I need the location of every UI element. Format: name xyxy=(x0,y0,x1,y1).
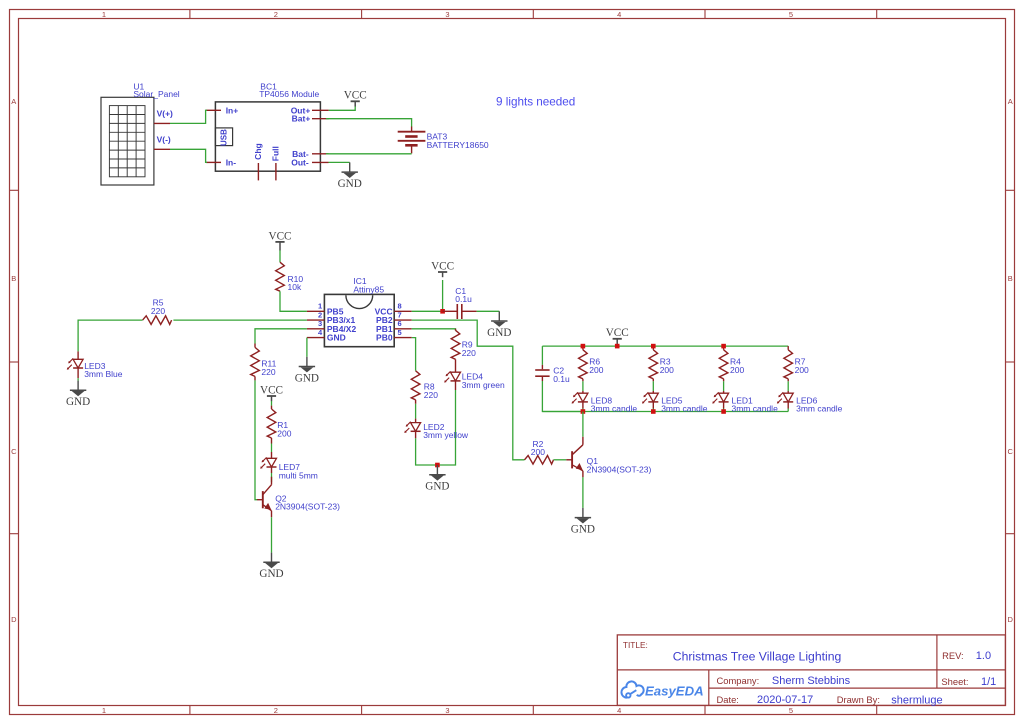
svg-text:5: 5 xyxy=(789,10,793,19)
wire R4 to LED1 xyxy=(723,379,725,382)
pin 3 PB4/X2 xyxy=(307,328,325,330)
resistor R9 xyxy=(455,329,457,331)
svg-text:3mm candle: 3mm candle xyxy=(661,404,708,414)
ground at IC pin 4 xyxy=(306,357,308,367)
svg-text:C: C xyxy=(1007,447,1013,456)
pin 8 VCC xyxy=(394,310,412,312)
pin Bat- xyxy=(312,153,329,155)
svg-text:200: 200 xyxy=(795,365,809,375)
wire pin 4 GND xyxy=(306,338,308,357)
svg-text:1/1: 1/1 xyxy=(981,676,996,688)
wire V(-) to In- xyxy=(170,149,207,162)
svg-text:EasyEDA: EasyEDA xyxy=(645,683,704,698)
wire C2 left branch xyxy=(541,346,543,365)
LED LED1 xyxy=(719,393,729,402)
svg-text:V(+): V(+) xyxy=(157,109,173,119)
wire R10 to pin 1 xyxy=(280,291,307,311)
svg-text:220: 220 xyxy=(462,348,476,358)
pin 7 PB2 xyxy=(394,319,412,321)
svg-text:GND: GND xyxy=(327,333,346,343)
pin In+ xyxy=(206,109,221,111)
wire Out- to ground xyxy=(329,161,350,163)
wire LED2 to ground junction xyxy=(416,438,438,465)
svg-text:D: D xyxy=(11,615,17,624)
junction node LED ground xyxy=(435,463,440,468)
title block dividers xyxy=(617,669,1005,671)
pin Bat+ xyxy=(312,118,329,120)
svg-text:7: 7 xyxy=(398,311,402,320)
svg-text:VCC: VCC xyxy=(431,260,454,272)
resistor R2 xyxy=(525,456,554,465)
svg-text:TITLE:: TITLE: xyxy=(623,640,648,650)
wire LED7 to Q2 collector xyxy=(271,473,273,482)
wire R9 to LED4 xyxy=(455,359,457,372)
pin V(-) xyxy=(154,148,170,150)
power flag VCC at R10 xyxy=(279,242,281,251)
svg-text:GND: GND xyxy=(425,481,449,493)
svg-text:2: 2 xyxy=(274,706,278,715)
TP4056 module BC1 body xyxy=(215,102,320,171)
svg-text:3: 3 xyxy=(318,319,322,328)
wire V(+) to In+ xyxy=(170,110,207,123)
wire Out+ to VCC xyxy=(329,106,355,110)
battery BAT3 xyxy=(411,127,413,132)
pin 1 PB5 xyxy=(307,310,325,312)
wire Q2 emitter to ground xyxy=(271,517,273,552)
svg-text:3mm candle: 3mm candle xyxy=(591,404,638,414)
svg-text:5: 5 xyxy=(789,706,793,715)
LED LED2 xyxy=(411,423,421,432)
svg-text:Date:: Date: xyxy=(717,694,739,705)
power flag VCC at R1 xyxy=(271,396,273,401)
power flag VCC at module xyxy=(354,101,356,106)
resistor R5 xyxy=(143,316,172,325)
svg-text:200: 200 xyxy=(589,365,603,375)
svg-text:2N3904(SOT-23): 2N3904(SOT-23) xyxy=(275,502,340,512)
ground at C1 xyxy=(498,311,500,321)
junction node rail top xyxy=(581,344,586,349)
title block border xyxy=(617,635,1005,706)
wire R2 to Q1 base xyxy=(554,459,567,461)
svg-text:GND: GND xyxy=(338,178,362,190)
resistor R3 xyxy=(652,346,654,350)
svg-text:PB0: PB0 xyxy=(376,333,393,343)
svg-text:B: B xyxy=(1008,274,1013,283)
svg-text:3mm green: 3mm green xyxy=(462,380,505,390)
wire LED8 to rail xyxy=(582,409,584,412)
resistor R4 xyxy=(723,346,725,350)
transistor Q2 xyxy=(262,491,264,508)
svg-text:4: 4 xyxy=(617,706,621,715)
svg-text:VCC: VCC xyxy=(606,327,629,339)
svg-text:D: D xyxy=(1007,615,1013,624)
svg-text:200: 200 xyxy=(730,365,744,375)
svg-text:Company:: Company: xyxy=(717,675,760,686)
svg-text:VCC: VCC xyxy=(268,230,291,242)
resistor R11 xyxy=(251,347,260,376)
svg-text:Christmas Tree Village Lightin: Christmas Tree Village Lighting xyxy=(673,649,841,663)
svg-text:3mm candle: 3mm candle xyxy=(796,404,843,414)
svg-text:220: 220 xyxy=(261,367,275,377)
svg-text:9 lights needed: 9 lights needed xyxy=(496,95,575,108)
frame column ticks xyxy=(189,10,191,19)
svg-text:0.1u: 0.1u xyxy=(553,374,570,384)
svg-text:GND: GND xyxy=(66,396,90,408)
pin In- xyxy=(206,161,221,163)
junction node rail top xyxy=(721,344,726,349)
svg-text:2N3904(SOT-23): 2N3904(SOT-23) xyxy=(587,464,652,474)
solar panel U1 body xyxy=(101,97,154,185)
junction node rail bottom xyxy=(581,409,586,414)
svg-text:Out-: Out- xyxy=(291,157,309,167)
USB connector box xyxy=(215,128,232,146)
svg-text:In-: In- xyxy=(226,157,237,167)
pin 5 PB0 xyxy=(394,337,412,339)
pin 2 PB3/x1 xyxy=(307,319,325,321)
svg-text:GND: GND xyxy=(259,568,283,580)
wire C2 to bottom rail xyxy=(542,381,583,412)
wire ground rail bottom xyxy=(542,411,788,413)
svg-text:1.0: 1.0 xyxy=(976,650,991,662)
ground at module xyxy=(349,162,351,172)
svg-text:Drawn By:: Drawn By: xyxy=(837,694,880,705)
wire R6 to LED8 xyxy=(582,379,584,382)
wire battery to Bat- xyxy=(326,153,412,155)
svg-text:multi 5mm: multi 5mm xyxy=(279,470,318,480)
svg-text:3mm Blue: 3mm Blue xyxy=(84,369,123,379)
junction node VCC xyxy=(440,309,445,314)
wire LED4 to ground junction xyxy=(437,390,455,465)
svg-text:200: 200 xyxy=(660,365,674,375)
LED LED8 xyxy=(578,393,588,402)
pin Out+ xyxy=(312,109,329,111)
wire pin 3 PB4 to R11 xyxy=(255,329,307,344)
LED LED7 xyxy=(267,458,277,467)
ground at LED3 xyxy=(77,381,79,391)
svg-text:V(-): V(-) xyxy=(157,135,171,145)
LED LED6 xyxy=(783,393,793,402)
svg-text:BATTERY18650: BATTERY18650 xyxy=(427,140,489,150)
svg-text:1: 1 xyxy=(102,10,106,19)
transistor Q1 xyxy=(571,451,573,468)
ground at Q2 xyxy=(271,553,273,563)
pin 6 PB1 xyxy=(394,328,412,330)
svg-text:VCC: VCC xyxy=(344,90,367,102)
svg-text:1: 1 xyxy=(318,302,322,311)
junction node rail bottom xyxy=(721,409,726,414)
wire pin 2 PB3 to R5 xyxy=(173,319,307,321)
LED LED4 xyxy=(451,372,461,381)
wire junction to VCC flag xyxy=(442,280,444,311)
svg-text:200: 200 xyxy=(531,447,545,457)
svg-text:Full: Full xyxy=(271,146,281,161)
ground at Q1 xyxy=(582,508,584,518)
LED LED5 xyxy=(648,393,658,402)
svg-text:6: 6 xyxy=(398,319,402,328)
wire Bat+ to battery xyxy=(326,119,412,127)
svg-text:C: C xyxy=(11,447,17,456)
wire VCC to R1 xyxy=(271,401,273,406)
svg-text:A: A xyxy=(11,97,16,106)
wire R7 to LED6 xyxy=(787,379,789,382)
svg-text:3: 3 xyxy=(445,10,449,19)
capacitor C1 xyxy=(443,310,458,312)
power flag VCC at IC xyxy=(442,272,444,277)
wire LED6 to rail xyxy=(787,409,789,412)
wire R3 to LED5 xyxy=(652,379,654,382)
svg-text:GND: GND xyxy=(487,327,511,339)
svg-text:B: B xyxy=(11,274,16,283)
wire VCC rail top xyxy=(542,345,788,347)
capacitor C2 xyxy=(541,365,543,369)
svg-text:2: 2 xyxy=(318,311,322,320)
svg-text:Sheet:: Sheet: xyxy=(941,676,968,687)
svg-text:VCC: VCC xyxy=(260,384,283,396)
resistor R10 xyxy=(276,262,285,291)
pin Full xyxy=(275,163,277,180)
svg-text:5: 5 xyxy=(398,328,402,337)
svg-text:2: 2 xyxy=(274,10,278,19)
svg-text:REV:: REV: xyxy=(942,650,964,661)
svg-text:0.1u: 0.1u xyxy=(455,294,472,304)
wire R11 to Q2 base xyxy=(254,376,256,380)
pin V(+) xyxy=(154,122,170,124)
svg-text:3mm candle: 3mm candle xyxy=(732,404,779,414)
svg-text:3: 3 xyxy=(445,706,449,715)
wire R5 to LED3 xyxy=(78,320,143,351)
svg-text:GND: GND xyxy=(295,372,319,384)
wire R8 to LED2 xyxy=(415,400,417,404)
EasyEDA logo cloud xyxy=(621,681,643,697)
op-amp IC1 Attiny85 body xyxy=(324,294,394,346)
pin Chg xyxy=(257,163,259,180)
resistor R6 xyxy=(582,346,584,350)
resistor R7 xyxy=(787,346,789,350)
ground at LED2 LED4 xyxy=(436,465,438,475)
svg-text:In+: In+ xyxy=(226,105,239,115)
junction node rail top xyxy=(651,344,656,349)
svg-text:2020-07-17: 2020-07-17 xyxy=(757,694,813,706)
LED LED3 xyxy=(73,359,83,368)
svg-text:8: 8 xyxy=(398,302,402,311)
wire VCC to R10 xyxy=(279,250,281,262)
pin Out- xyxy=(312,161,329,163)
svg-text:Bat+: Bat+ xyxy=(292,114,311,124)
svg-text:USB: USB xyxy=(219,129,228,146)
junction node rail bottom xyxy=(651,409,656,414)
svg-text:Attiny85: Attiny85 xyxy=(353,284,384,294)
svg-text:TP4056 Module: TP4056 Module xyxy=(259,89,319,99)
svg-text:GND: GND xyxy=(571,524,595,536)
wire rail to Q1 collector xyxy=(582,412,584,437)
wire pin 7 PB2 to R2 xyxy=(412,320,525,460)
svg-text:A: A xyxy=(1008,97,1013,106)
wire C1 to ground xyxy=(477,310,500,312)
power flag VCC at rail xyxy=(616,339,618,346)
pin 4 GND xyxy=(307,337,325,339)
svg-text:3mm yellow: 3mm yellow xyxy=(423,430,469,440)
wire LED5 to rail xyxy=(652,409,654,412)
svg-text:Chg: Chg xyxy=(253,143,263,160)
resistor R1 xyxy=(267,409,276,438)
wire LED3 to ground xyxy=(77,378,79,380)
frame row ticks xyxy=(10,189,19,191)
svg-text:220: 220 xyxy=(151,306,165,316)
wire Q1 emitter to ground xyxy=(582,477,584,508)
wire LED1 to rail xyxy=(723,409,725,412)
svg-text:Solar_Panel: Solar_Panel xyxy=(133,89,179,99)
resistor R8 xyxy=(411,371,420,400)
svg-text:10k: 10k xyxy=(288,282,302,292)
svg-text:200: 200 xyxy=(277,428,291,438)
svg-text:shermluge: shermluge xyxy=(891,694,942,706)
svg-text:Sherm Stebbins: Sherm Stebbins xyxy=(772,675,851,687)
wire R1 to LED7 xyxy=(271,438,273,444)
wire pin 5 PB0 to R8 xyxy=(412,338,416,371)
svg-text:220: 220 xyxy=(424,390,438,400)
wire pin 6 PB1 to R9 xyxy=(412,329,456,331)
wire pin 8 to junction xyxy=(412,310,443,312)
svg-text:4: 4 xyxy=(617,10,621,19)
svg-text:1: 1 xyxy=(102,706,106,715)
